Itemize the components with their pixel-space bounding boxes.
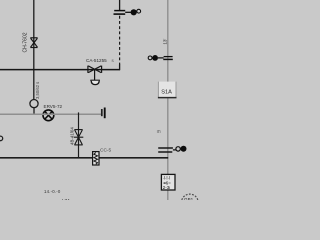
wire V1 below circle [33, 108, 35, 115]
filled dot (upper V3) [152, 55, 158, 61]
svg-text:CH-7602: CH-7602 [23, 32, 29, 52]
instrument crossed circle on H2 [43, 110, 54, 121]
capacitor-style break (top plates) [114, 10, 125, 12]
wire V1 vertical pipe top [33, 0, 35, 100]
svg-text:3,50/62 s: 3,50/62 s [35, 82, 40, 99]
filled dot (top) [131, 9, 137, 15]
wire V2 corner to H1 [119, 65, 121, 71]
stub left to indicator dot (upper V3) [158, 57, 164, 59]
wire V4 branch down [78, 112, 80, 157]
svg-text:CC-5: CC-5 [100, 148, 112, 154]
svg-text:14.-0.-0: 14.-0.-0 [44, 189, 61, 194]
node instrument circle on V1 [30, 100, 38, 108]
wire H1 horizontal pipe [0, 69, 120, 71]
valve CH-7602 (vertical bowtie) [30, 38, 37, 48]
svg-text:13’: 13’ [163, 39, 168, 45]
small open circle (lower V3) [176, 147, 180, 151]
svg-text:4B-41/04: 4B-41/04 [69, 127, 74, 145]
drain funnel symbol [90, 80, 100, 84]
wire V3 main gray riser [167, 0, 169, 200]
wire V2 top stub [119, 0, 121, 10]
wire H3 bottom header [0, 157, 168, 159]
small open circle (top) [137, 9, 141, 13]
svg-text:ERV5-72: ERV5-72 [44, 104, 63, 109]
pipe-end double bar terminator [101, 109, 103, 116]
svg-text:CA-51255: CA-51255 [86, 58, 107, 63]
stub to indicator dot (top) [125, 11, 131, 13]
svg-text:GB1: GB1 [184, 197, 194, 200]
capacitor-style break on V3 (lower) [158, 147, 173, 149]
half circle glyph at left edge [0, 136, 3, 141]
filled dot (lower V3) [181, 146, 187, 152]
svg-text:S1A: S1A [161, 90, 172, 96]
valve 4B-41/04 (vertical bowtie with stem tick) [74, 130, 84, 145]
svg-text:2-3ı: 2-3ı [163, 185, 171, 190]
wire H2 gray line [0, 113, 101, 115]
svg-text:L7J: L7J [62, 198, 69, 200]
small open circle (upper V3) [148, 56, 152, 60]
component box with markings on V3 [161, 174, 175, 190]
valve CA-51255 (horizontal bowtie) [88, 66, 102, 73]
capacitor-style break on V3 (upper) [164, 56, 173, 58]
stub right (lower V3) [173, 149, 176, 151]
wire drain stub below valve CA-51255 [94, 69, 96, 80]
junction box S1A [158, 82, 177, 98]
svg-text:ın: ın [157, 129, 161, 135]
wire V2 dashed drop [119, 16, 121, 65]
partial stamp circle bottom right [181, 194, 198, 211]
heater coil box on H3 [93, 152, 99, 165]
